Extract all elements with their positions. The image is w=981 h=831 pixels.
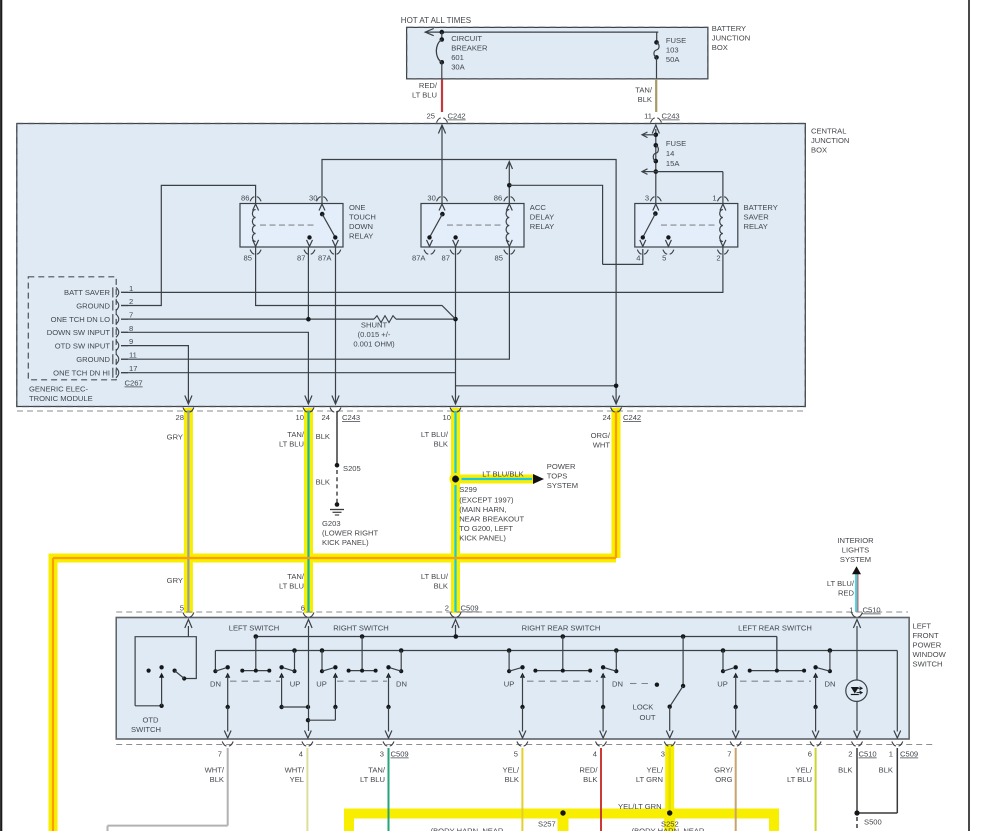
svg-text:BLK: BLK — [434, 582, 448, 591]
svg-text:87: 87 — [442, 254, 450, 263]
svg-text:2: 2 — [445, 604, 449, 613]
svg-text:DOWN SW INPUT: DOWN SW INPUT — [47, 328, 111, 337]
svg-text:85: 85 — [244, 254, 252, 263]
svg-text:DN: DN — [612, 680, 623, 689]
svg-text:9: 9 — [129, 337, 133, 346]
svg-text:WHT/: WHT/ — [285, 766, 305, 775]
svg-text:1: 1 — [889, 750, 893, 759]
svg-text:BOX: BOX — [712, 43, 728, 52]
svg-text:3: 3 — [645, 194, 649, 203]
svg-text:SWITCH: SWITCH — [131, 725, 161, 734]
svg-text:CENTRAL: CENTRAL — [811, 127, 846, 136]
svg-text:3: 3 — [380, 750, 384, 759]
svg-text:BLK: BLK — [638, 95, 652, 104]
svg-text:LEFT: LEFT — [913, 622, 932, 631]
svg-text:LT BLU/: LT BLU/ — [421, 572, 449, 581]
svg-text:GRY: GRY — [167, 576, 183, 585]
svg-text:YEL/: YEL/ — [647, 766, 664, 775]
svg-text:OTD: OTD — [142, 716, 159, 725]
svg-text:KICK PANEL): KICK PANEL) — [322, 538, 369, 547]
svg-text:RELAY: RELAY — [744, 222, 768, 231]
svg-text:TAN/: TAN/ — [635, 86, 653, 95]
svg-text:DELAY: DELAY — [530, 213, 554, 222]
svg-text:JUNCTION: JUNCTION — [712, 34, 750, 43]
svg-text:DN: DN — [210, 680, 221, 689]
svg-text:YEL/LT GRN: YEL/LT GRN — [618, 802, 662, 811]
svg-text:TO G200, LEFT: TO G200, LEFT — [459, 524, 513, 533]
svg-text:ONE TCH DN LO: ONE TCH DN LO — [51, 315, 110, 324]
svg-text:WHT/: WHT/ — [205, 766, 225, 775]
svg-text:S205: S205 — [343, 464, 361, 473]
svg-text:6: 6 — [301, 604, 305, 613]
svg-text:(BODY HARN, NEAR: (BODY HARN, NEAR — [632, 827, 705, 831]
svg-text:30: 30 — [309, 194, 317, 203]
svg-text:5: 5 — [662, 254, 666, 263]
svg-text:RIGHT REAR SWITCH: RIGHT REAR SWITCH — [522, 624, 601, 633]
svg-text:5: 5 — [180, 604, 184, 613]
svg-text:SYSTEM: SYSTEM — [840, 555, 871, 564]
svg-text:50A: 50A — [666, 55, 680, 64]
svg-text:87A: 87A — [318, 254, 332, 263]
svg-text:TOPS: TOPS — [547, 472, 568, 481]
svg-text:601: 601 — [451, 53, 464, 62]
svg-text:BLK: BLK — [316, 432, 330, 441]
svg-text:TAN/: TAN/ — [368, 766, 386, 775]
svg-text:G203: G203 — [322, 519, 341, 528]
svg-text:0.001 OHM): 0.001 OHM) — [353, 340, 395, 349]
svg-text:LOCK: LOCK — [633, 703, 654, 712]
svg-text:BLK: BLK — [210, 775, 224, 784]
svg-text:ONE: ONE — [349, 203, 365, 212]
svg-text:GROUND: GROUND — [76, 301, 110, 310]
svg-text:25: 25 — [427, 112, 435, 121]
svg-text:LIGHTS: LIGHTS — [842, 546, 869, 555]
svg-text:87: 87 — [297, 254, 305, 263]
svg-text:ONE TCH DN HI: ONE TCH DN HI — [53, 369, 110, 378]
svg-text:SAVER: SAVER — [744, 213, 770, 222]
svg-text:10: 10 — [296, 413, 304, 422]
svg-text:14: 14 — [666, 149, 674, 158]
svg-text:BLK: BLK — [505, 775, 519, 784]
svg-text:24: 24 — [603, 413, 611, 422]
svg-text:C509: C509 — [461, 604, 479, 613]
svg-text:4: 4 — [636, 254, 640, 263]
svg-text:POWER: POWER — [547, 462, 576, 471]
svg-text:C243: C243 — [342, 413, 360, 422]
svg-text:RED: RED — [838, 589, 855, 598]
svg-text:S299: S299 — [459, 485, 477, 494]
svg-text:SWITCH: SWITCH — [913, 660, 943, 669]
svg-text:2: 2 — [848, 750, 852, 759]
svg-text:LT BLU/BLK: LT BLU/BLK — [482, 470, 524, 479]
svg-text:YEL/: YEL/ — [796, 766, 813, 775]
svg-text:7: 7 — [727, 750, 731, 759]
svg-text:LEFT SWITCH: LEFT SWITCH — [229, 624, 280, 633]
svg-text:1: 1 — [129, 284, 133, 293]
svg-text:4: 4 — [299, 750, 303, 759]
svg-text:WHT: WHT — [593, 441, 611, 450]
svg-text:FUSE: FUSE — [666, 36, 686, 45]
svg-text:LT BLU: LT BLU — [787, 775, 812, 784]
svg-text:FUSE: FUSE — [666, 139, 686, 148]
svg-text:WINDOW: WINDOW — [913, 650, 947, 659]
svg-text:FRONT: FRONT — [913, 631, 940, 640]
svg-text:(LOWER RIGHT: (LOWER RIGHT — [322, 529, 378, 538]
svg-text:POWER: POWER — [913, 641, 942, 650]
svg-text:11: 11 — [129, 351, 137, 360]
svg-text:(EXCEPT 1997): (EXCEPT 1997) — [459, 496, 514, 505]
svg-text:86: 86 — [241, 194, 249, 203]
svg-text:TOUCH: TOUCH — [349, 213, 376, 222]
svg-text:15A: 15A — [666, 159, 680, 168]
svg-text:4: 4 — [593, 750, 597, 759]
svg-text:GRY/: GRY/ — [714, 766, 733, 775]
svg-text:C243: C243 — [662, 112, 680, 121]
svg-text:17: 17 — [129, 364, 137, 373]
svg-text:UP: UP — [504, 680, 515, 689]
svg-text:C510: C510 — [863, 606, 881, 615]
svg-text:KICK PANEL): KICK PANEL) — [459, 534, 506, 543]
svg-text:RELAY: RELAY — [349, 232, 373, 241]
svg-text:3: 3 — [661, 750, 665, 759]
svg-text:C509: C509 — [900, 750, 918, 759]
svg-text:28: 28 — [176, 413, 184, 422]
svg-text:LT BLU: LT BLU — [412, 91, 437, 100]
svg-text:INTERIOR: INTERIOR — [837, 536, 874, 545]
svg-text:OTD SW INPUT: OTD SW INPUT — [55, 341, 111, 350]
svg-text:OUT: OUT — [639, 713, 655, 722]
svg-text:BATTERY: BATTERY — [744, 203, 778, 212]
svg-text:UP: UP — [290, 680, 301, 689]
svg-text:S500: S500 — [864, 818, 882, 827]
svg-text:RED/: RED/ — [579, 766, 598, 775]
svg-text:DN: DN — [825, 680, 836, 689]
svg-text:RIGHT SWITCH: RIGHT SWITCH — [333, 624, 389, 633]
svg-text:ORG: ORG — [715, 775, 732, 784]
svg-text:BATT SAVER: BATT SAVER — [64, 288, 111, 297]
svg-text:UP: UP — [316, 680, 327, 689]
svg-text:DOWN: DOWN — [349, 222, 373, 231]
svg-text:7: 7 — [218, 750, 222, 759]
svg-text:(MAIN HARN,: (MAIN HARN, — [459, 505, 506, 514]
svg-text:7: 7 — [129, 311, 133, 320]
svg-text:GENERIC ELEC-: GENERIC ELEC- — [29, 385, 89, 394]
svg-text:GROUND: GROUND — [76, 355, 110, 364]
svg-text:UP: UP — [717, 680, 728, 689]
svg-text:TAN/: TAN/ — [287, 572, 305, 581]
svg-text:86: 86 — [494, 194, 502, 203]
svg-text:BLK: BLK — [838, 766, 852, 775]
svg-text:8: 8 — [129, 324, 133, 333]
svg-text:RELAY: RELAY — [530, 222, 554, 231]
svg-text:GRY: GRY — [167, 433, 183, 442]
svg-text:NEAR BREAKOUT: NEAR BREAKOUT — [459, 515, 524, 524]
svg-text:S257: S257 — [538, 820, 556, 829]
svg-text:JUNCTION: JUNCTION — [811, 136, 849, 145]
svg-text:TAN/: TAN/ — [287, 430, 305, 439]
svg-text:(0.015 +/-: (0.015 +/- — [358, 330, 391, 339]
svg-text:BOX: BOX — [811, 146, 827, 155]
svg-text:30A: 30A — [451, 63, 465, 72]
svg-text:24: 24 — [322, 413, 330, 422]
svg-text:BATTERY: BATTERY — [712, 24, 746, 33]
svg-text:6: 6 — [808, 750, 812, 759]
svg-text:SHUNT: SHUNT — [361, 321, 388, 330]
svg-text:(BODY HARN, NEAR: (BODY HARN, NEAR — [431, 827, 504, 831]
svg-text:LT BLU/: LT BLU/ — [421, 430, 449, 439]
svg-text:TRONIC MODULE: TRONIC MODULE — [29, 394, 93, 403]
svg-text:ORG/: ORG/ — [591, 431, 611, 440]
svg-text:LT GRN: LT GRN — [636, 775, 663, 784]
svg-text:C242: C242 — [448, 112, 466, 121]
svg-text:YEL/: YEL/ — [503, 766, 520, 775]
svg-text:11: 11 — [644, 112, 652, 121]
svg-text:LT BLU/: LT BLU/ — [827, 579, 855, 588]
svg-text:2: 2 — [129, 297, 133, 306]
svg-text:BREAKER: BREAKER — [451, 44, 488, 53]
svg-text:C510: C510 — [859, 750, 877, 759]
svg-text:LEFT REAR SWITCH: LEFT REAR SWITCH — [738, 624, 812, 633]
svg-text:1: 1 — [712, 194, 716, 203]
svg-text:BLK: BLK — [316, 478, 330, 487]
svg-text:LT BLU: LT BLU — [279, 582, 304, 591]
svg-text:10: 10 — [443, 413, 451, 422]
svg-text:2: 2 — [716, 254, 720, 263]
svg-text:103: 103 — [666, 45, 679, 54]
svg-text:ACC: ACC — [530, 203, 547, 212]
svg-text:LT BLU: LT BLU — [279, 440, 304, 449]
svg-text:RED/: RED/ — [419, 81, 438, 90]
svg-text:BLK: BLK — [879, 766, 893, 775]
svg-text:BLK: BLK — [583, 775, 597, 784]
svg-text:C242: C242 — [623, 413, 641, 422]
svg-text:30: 30 — [427, 194, 435, 203]
svg-text:HOT AT ALL TIMES: HOT AT ALL TIMES — [401, 16, 471, 25]
svg-text:DN: DN — [396, 680, 407, 689]
svg-text:87A: 87A — [412, 254, 426, 263]
svg-text:LT BLU: LT BLU — [360, 775, 385, 784]
svg-text:85: 85 — [495, 254, 503, 263]
svg-text:C267: C267 — [125, 379, 143, 388]
svg-text:5: 5 — [514, 750, 518, 759]
svg-text:BLK: BLK — [434, 440, 448, 449]
svg-text:YEL: YEL — [290, 775, 304, 784]
svg-text:SYSTEM: SYSTEM — [547, 481, 578, 490]
svg-text:CIRCUIT: CIRCUIT — [451, 34, 482, 43]
svg-text:C509: C509 — [391, 750, 409, 759]
